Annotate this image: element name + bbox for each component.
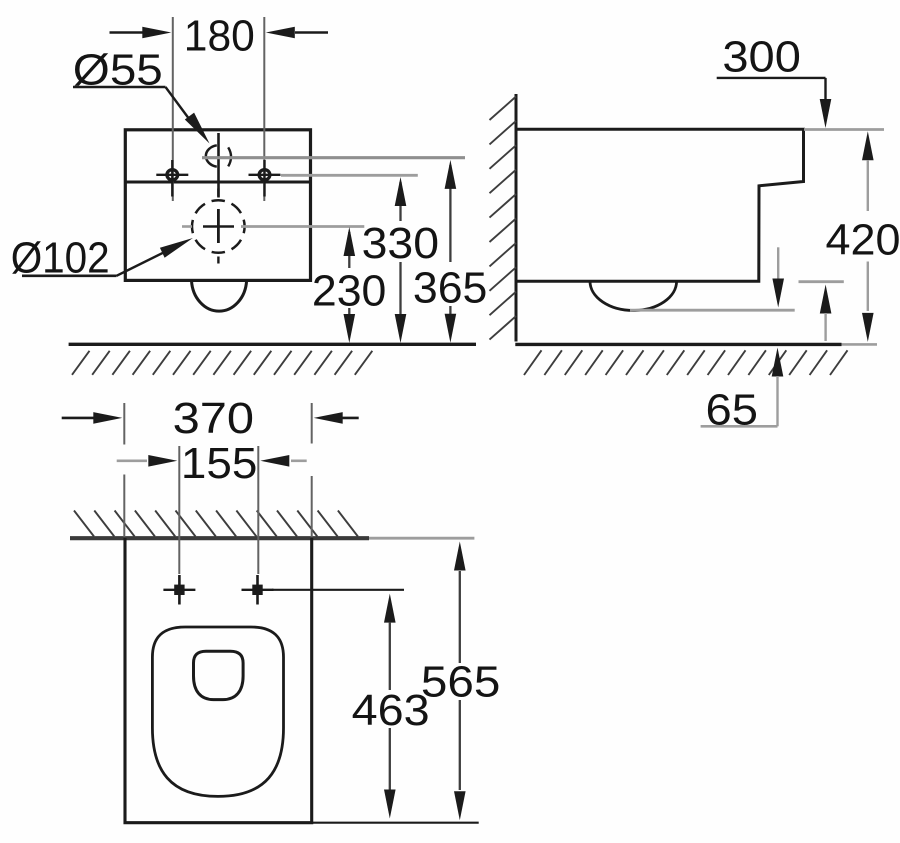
extension line from O55 center [202,156,465,159]
svg-text:420: 420 [826,216,900,265]
dim 565 top arrow [454,542,466,664]
fixing hole cross left [156,160,188,197]
dim 155 text [181,439,258,488]
plan view wall extension line [369,537,474,540]
dim 155 left extension line [178,446,180,574]
front view floor hatching [72,351,372,375]
dim 65 text [706,386,759,435]
fixing hole cross right [249,160,281,197]
dim 180 text [184,12,255,61]
dim 565 bottom arrow [454,700,466,820]
dim 330 line lower [395,262,407,343]
dim 370 left extension line [123,403,125,537]
plan fixing hole cross right [242,575,274,605]
dim 155 right extension line [257,446,259,574]
front view trap semicircle bump [192,281,247,312]
svg-text:180: 180 [184,12,255,61]
dim 565 text [421,657,501,706]
label O55 leader arrowhead [185,113,210,144]
dim 65 tail line [701,425,778,428]
dim 370 right arrow [314,412,359,424]
dim 370 left arrow [62,412,123,424]
side view floor line [515,343,877,346]
dim 370 right extension line [311,403,313,537]
plan view wall line [70,536,369,540]
svg-text:565: 565 [421,657,501,706]
bowl bottom extension line [799,280,844,283]
dim 300 text [722,33,801,82]
plan view bottom extension line [312,822,479,824]
plan view wall hatching [74,511,358,537]
side view outline [516,129,804,281]
svg-text:300: 300 [722,33,801,82]
dim 180 right arrow [266,27,328,39]
side view drain arc [590,281,677,310]
label O55 underline [73,86,166,89]
dim 230 line upper [344,227,356,268]
dim 365 line upper [445,160,457,262]
dim 463 text [352,686,430,735]
dim 420 bottom arrow [862,262,874,342]
label O55 leader line [166,87,193,124]
plan view body rectangle [125,538,312,823]
dim 300 arrow [820,99,832,128]
dim 463 top arrow [384,594,396,690]
dim 155 left arrow [117,455,178,467]
svg-text:155: 155 [181,439,258,488]
dim 155 right arrow [260,455,306,467]
front view divider line [125,181,310,184]
outlet horizontal centerline [182,225,234,228]
dim 330 line upper [395,177,407,221]
svg-text:330: 330 [362,219,440,268]
plan bowl outline [152,627,283,796]
flush hole vertical centerline [217,133,220,198]
outlet vertical centerline [217,189,219,264]
dim 420 top arrow [862,131,874,211]
svg-text:370: 370 [173,394,255,443]
front view body rectangle [125,130,310,281]
label O102 leader line [117,251,167,275]
svg-text:65: 65 [706,386,759,435]
outlet circle O102 [192,200,245,253]
dim 365 text [413,264,488,313]
side view wall line [515,94,518,342]
dim 370 text [173,394,255,443]
dim 463 bottom arrow [384,728,396,819]
dim 330 text [362,219,440,268]
flush hole right arc [228,147,231,166]
dim 300 line [717,78,826,102]
plan fixing hole cross left [163,575,195,605]
extension line from O102 center [241,225,364,228]
dim 365 line lower [445,306,457,343]
side view top edge extension [804,128,884,131]
extension line from fixing holes [281,174,418,177]
flush hole circle O55 left arc [206,145,217,166]
dim 180 right extension line [263,17,265,201]
side view wall hatching [490,97,517,340]
side view floor hatching [524,350,848,375]
dim 180 left extension line [172,17,174,201]
label O102 leader arrowhead [160,238,193,258]
dim 420 text [826,216,900,265]
drain depth down arrow [772,247,784,307]
dim 180 left arrow [110,27,172,39]
plan flush hole outline [194,651,244,699]
drain bottom extension line [630,309,795,312]
label O55 text [73,46,163,95]
label O102 underline [22,274,117,277]
front view floor line [69,343,476,346]
dim 65 bottom arrow [772,348,784,427]
svg-text:463: 463 [352,686,430,735]
dim 230 line lower [344,308,356,343]
svg-text:365: 365 [413,264,488,313]
plan fixing hole extension line [272,589,404,591]
bowl bottom up arrow [820,285,832,342]
dim 230 text [312,266,387,315]
label O102 text [11,234,110,283]
